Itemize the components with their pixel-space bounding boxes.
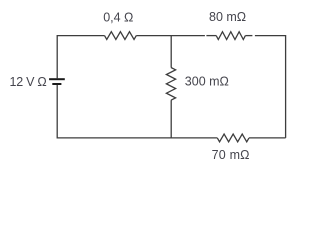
battery V1 long plate	[49, 78, 65, 80]
svg-text:80 mΩ: 80 mΩ	[209, 10, 246, 24]
wire left rail lower with bottom rail left segment	[57, 85, 217, 138]
resistor R2 80 mohm	[216, 32, 245, 40]
wire middle branch upper	[170, 36, 172, 68]
resistor R1 0,4 ohm	[105, 32, 137, 40]
resistor R3 300 mohm vertical	[166, 68, 175, 101]
wire middle branch lower	[170, 100, 172, 138]
wire top rail middle segment	[136, 35, 205, 37]
svg-text:0,4 Ω: 0,4 Ω	[103, 11, 133, 25]
svg-text:300 mΩ: 300 mΩ	[185, 75, 229, 89]
wire top rail right short segment	[245, 35, 252, 37]
wire top right corner to right rail	[255, 36, 286, 138]
resistor R4 70 mohm	[217, 134, 249, 142]
svg-text:70 mΩ: 70 mΩ	[212, 148, 250, 162]
svg-text:12 V Ω: 12 V Ω	[10, 75, 47, 89]
wire top rail gap segment	[206, 35, 216, 37]
wire top rail left segment	[57, 36, 104, 79]
battery V1 short plate	[52, 83, 61, 85]
wire bottom rail right segment	[249, 137, 286, 139]
